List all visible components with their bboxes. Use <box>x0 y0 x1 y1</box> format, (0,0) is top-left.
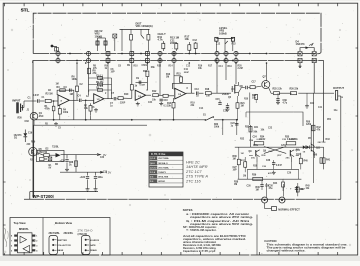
svg-text:1M: 1M <box>241 153 244 155</box>
svg-text:C5 0.1: C5 0.1 <box>96 75 103 77</box>
svg-text:R14: R14 <box>167 102 172 105</box>
svg-text:R33: R33 <box>245 126 250 128</box>
svg-text:EMITTER: EMITTER <box>57 240 67 242</box>
svg-text:1M: 1M <box>233 158 236 160</box>
svg-text:9V: 9V <box>49 168 52 170</box>
svg-text:2SC: 2SC <box>286 158 291 160</box>
svg-text:0.022: 0.022 <box>287 139 293 141</box>
svg-text:VR1 100kB(G): VR1 100kB(G) <box>136 24 153 28</box>
svg-text:R29: R29 <box>31 142 36 144</box>
svg-text:120k: 120k <box>281 145 287 147</box>
svg-text:10P: 10P <box>111 72 116 74</box>
svg-text:0.047: 0.047 <box>33 94 39 97</box>
svg-text:BASE: BASE <box>57 249 64 252</box>
svg-text:10k: 10k <box>185 37 190 41</box>
svg-text:1M: 1M <box>234 184 237 186</box>
svg-text:R39: R39 <box>252 175 257 177</box>
svg-text:R12: R12 <box>152 90 157 93</box>
svg-text:R, TR, D Use: R, TR, D Use <box>151 153 166 156</box>
svg-text:2SC945L: 2SC945L <box>64 232 74 235</box>
svg-text:1S2473: 1S2473 <box>14 134 23 137</box>
svg-text:R43: R43 <box>326 138 331 141</box>
svg-text:2SC732BL: 2SC732BL <box>49 233 61 235</box>
svg-text:2SC732: 2SC732 <box>318 142 327 144</box>
svg-text:D 1-4: D 1-4 <box>150 171 156 174</box>
svg-text:1M: 1M <box>70 93 73 96</box>
svg-text:R25 2.2k: R25 2.2k <box>273 89 283 91</box>
svg-text:1M: 1M <box>166 77 169 79</box>
svg-text:0.047: 0.047 <box>140 84 146 87</box>
svg-text:R15: R15 <box>177 74 182 76</box>
svg-text:2SC: 2SC <box>251 158 256 160</box>
svg-text:Q 1-5: Q 1-5 <box>150 158 156 160</box>
svg-text:120k: 120k <box>253 145 259 147</box>
svg-text:2SC732: 2SC732 <box>39 151 48 154</box>
svg-text:2SC732BL: 2SC732BL <box>158 158 169 160</box>
svg-text:C15: C15 <box>216 99 221 101</box>
svg-text:R18: R18 <box>205 89 210 91</box>
svg-text:100k: 100k <box>63 112 69 114</box>
svg-text:1S2473: 1S2473 <box>296 42 306 46</box>
svg-text:2SK30: 2SK30 <box>222 94 230 96</box>
svg-text:NOTES: NOTES <box>183 208 193 212</box>
svg-text:Capacitance in P=PF, μ=μF: Capacitance in P=PF, μ=μF <box>183 249 216 253</box>
svg-text:100k: 100k <box>214 126 220 128</box>
svg-text:C26: C26 <box>266 160 271 162</box>
svg-text:C17: C17 <box>252 81 257 83</box>
svg-text:C13: C13 <box>195 89 200 91</box>
svg-text:Bottom View: Bottom View <box>55 221 73 225</box>
svg-text:+C21: +C21 <box>60 160 66 162</box>
svg-text:WP-ST200Ⅰ: WP-ST200Ⅰ <box>33 194 54 199</box>
svg-text:R40: R40 <box>304 160 309 163</box>
svg-text:R22: R22 <box>232 44 237 46</box>
svg-text:DRAIN: DRAIN <box>90 249 97 252</box>
svg-text:1M: 1M <box>56 84 59 86</box>
svg-text:STL: STL <box>21 8 30 13</box>
svg-text:R11: R11 <box>143 71 148 73</box>
svg-text:1M: 1M <box>241 106 244 108</box>
svg-text:SK30A-O: SK30A-O <box>158 162 168 165</box>
svg-text:1M: 1M <box>256 190 259 192</box>
svg-text:C14: C14 <box>219 65 224 68</box>
svg-text:10P: 10P <box>233 170 238 172</box>
svg-text:4.7k: 4.7k <box>158 38 164 42</box>
svg-text:R2 1M: R2 1M <box>46 93 53 96</box>
svg-text:2TK 72A-O: 2TK 72A-O <box>78 229 94 233</box>
svg-text:10u: 10u <box>334 110 339 112</box>
svg-text:2SC732BL: 2SC732BL <box>158 167 169 169</box>
svg-text:R41: R41 <box>326 158 331 161</box>
svg-text:M5207L: M5207L <box>19 227 29 231</box>
svg-text:capacitors are above 25V ratin: capacitors are above 25V rating. <box>190 215 253 219</box>
svg-text:Top View: Top View <box>14 221 27 225</box>
svg-text:220P: 220P <box>120 103 126 105</box>
svg-text:0.022: 0.022 <box>260 139 266 141</box>
svg-text:R46: R46 <box>256 186 261 189</box>
svg-text:0.047: 0.047 <box>276 164 282 167</box>
svg-text:C23: C23 <box>231 123 236 125</box>
svg-text:R10: R10 <box>124 93 129 96</box>
svg-text:2.2M: 2.2M <box>238 68 243 70</box>
svg-text:47u: 47u <box>269 187 274 190</box>
svg-text:C10: C10 <box>164 100 169 102</box>
svg-text:C20: C20 <box>100 157 105 159</box>
svg-text:220P: 220P <box>184 72 190 74</box>
svg-text:1S2473: 1S2473 <box>158 171 166 174</box>
svg-text:732BL: 732BL <box>52 147 59 149</box>
svg-text:4.7u: 4.7u <box>283 102 288 105</box>
svg-text:Q10: Q10 <box>296 154 301 156</box>
svg-text:R44: R44 <box>273 182 278 185</box>
svg-text:2TC 116: 2TC 116 <box>185 178 201 183</box>
svg-text:470k: 470k <box>45 107 51 110</box>
svg-text:100k: 100k <box>72 78 78 81</box>
svg-text:100kB: 100kB <box>219 31 227 35</box>
svg-text:R45: R45 <box>306 185 311 188</box>
svg-text:C30: C30 <box>247 186 252 188</box>
svg-text:COLLECTOR: COLLECTOR <box>57 245 71 247</box>
svg-text:GATE: GATE <box>90 244 96 247</box>
svg-text:T : TANTALUM capacitor.: T : TANTALUM capacitor. <box>186 228 216 232</box>
svg-text:NORMAL-EFFECT: NORMAL-EFFECT <box>278 209 300 212</box>
svg-text:Q11: Q11 <box>316 147 321 149</box>
svg-text:R42: R42 <box>317 126 322 129</box>
svg-text:2SC: 2SC <box>39 115 44 118</box>
svg-text:C12: C12 <box>193 39 198 42</box>
svg-text:+C22: +C22 <box>80 177 86 179</box>
svg-text:R26 22k: R26 22k <box>290 89 299 91</box>
svg-text:SOURCE: SOURCE <box>90 240 100 242</box>
svg-text:R30: R30 <box>18 118 23 120</box>
svg-text:WO4-7EB: WO4-7EB <box>158 175 168 178</box>
svg-text:OUTPUT: OUTPUT <box>333 86 344 90</box>
svg-text:1M: 1M <box>243 176 246 178</box>
svg-text:R20: R20 <box>238 66 243 68</box>
svg-text:100u: 100u <box>98 177 104 179</box>
svg-text:C16: C16 <box>223 111 228 113</box>
svg-text:220P: 220P <box>170 41 176 45</box>
svg-text:R19: R19 <box>228 66 233 68</box>
svg-text:C33: C33 <box>25 121 30 123</box>
svg-text:C19: C19 <box>28 133 33 135</box>
svg-text:WZ061: WZ061 <box>158 181 166 183</box>
svg-text:changed without notice.: changed without notice. <box>267 250 306 253</box>
svg-text:R16: R16 <box>198 66 203 68</box>
svg-text:R24: R24 <box>252 94 257 97</box>
svg-text:C12: C12 <box>216 44 221 46</box>
svg-text:INPUT: INPUT <box>12 99 20 103</box>
svg-text:Q 9-12: Q 9-12 <box>150 167 157 169</box>
